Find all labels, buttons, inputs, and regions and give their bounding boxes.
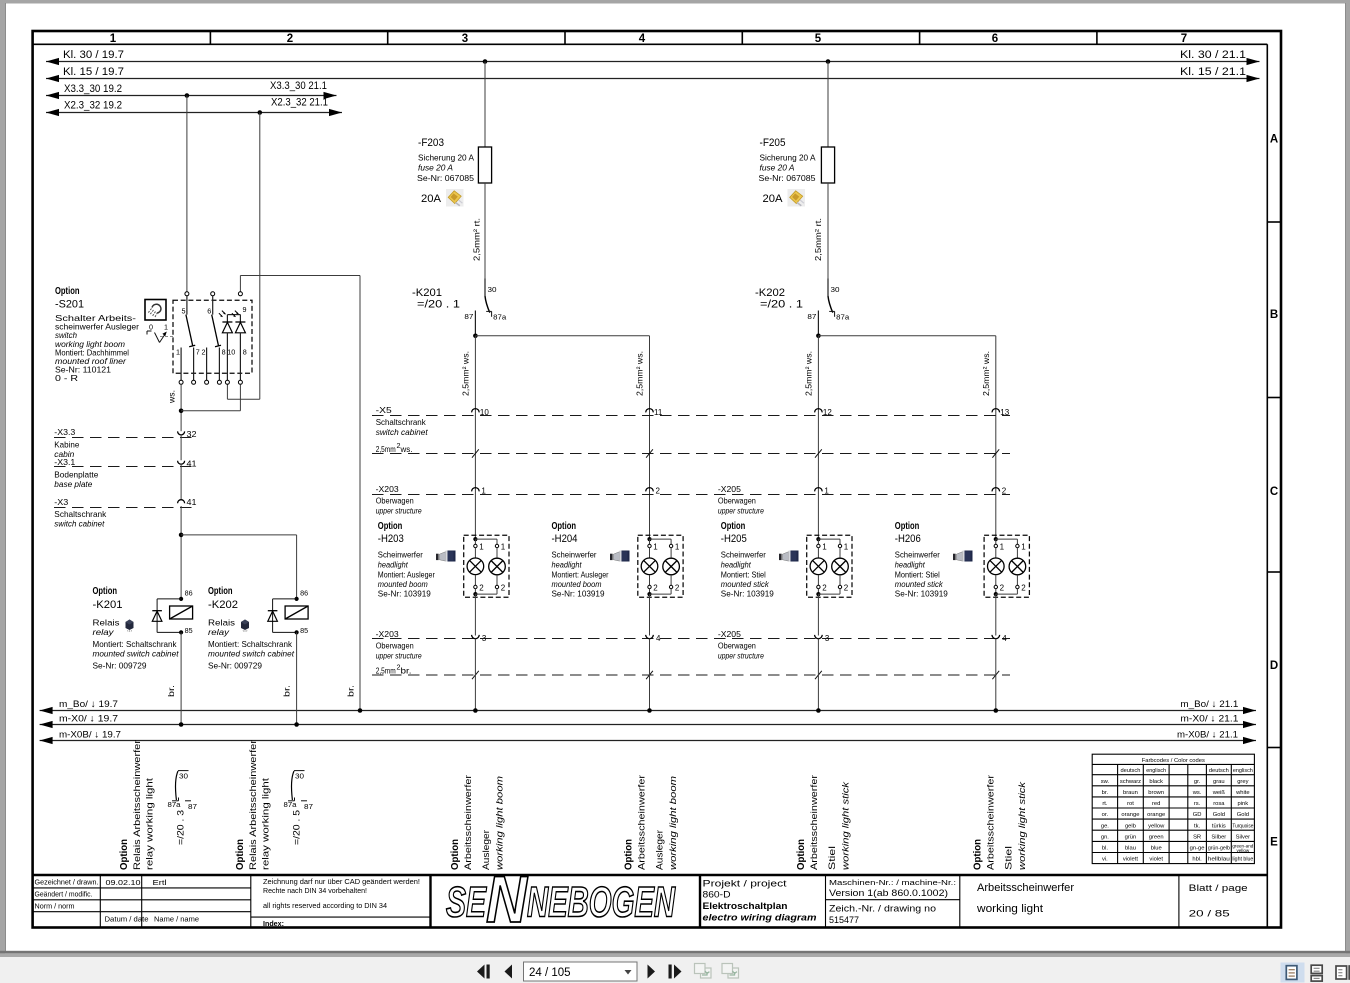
svg-text:Option: Option <box>449 839 461 870</box>
node Kl.30/F203 <box>483 59 488 64</box>
svg-text:Zeich.-Nr. / drawing no: Zeich.-Nr. / drawing no <box>829 903 936 913</box>
svg-text:2,5mm² ws.: 2,5mm² ws. <box>981 351 991 396</box>
svg-text:Rechte nach DIN 34 vorbehalten: Rechte nach DIN 34 vorbehalten! <box>263 886 367 895</box>
X203/X205 upper pin 2 <box>992 488 1000 492</box>
fuse icon F205 <box>788 189 806 207</box>
svg-text:working light boom: working light boom <box>495 776 506 870</box>
wire crossing <box>815 449 822 457</box>
svg-text:Montiert: Stiel: Montiert: Stiel <box>721 569 766 579</box>
svg-text:mounted stick: mounted stick <box>895 579 944 589</box>
svg-text:86: 86 <box>300 589 308 598</box>
svg-text:Option: Option <box>118 839 130 870</box>
svg-text:1: 1 <box>653 543 658 552</box>
svg-text:Option: Option <box>623 839 635 870</box>
svg-text:Oberwagen: Oberwagen <box>376 496 414 506</box>
svg-text:vi.: vi. <box>1102 857 1108 863</box>
svg-text:m_Bo/ ↓ 21.1: m_Bo/ ↓ 21.1 <box>1180 699 1238 710</box>
svg-text:9: 9 <box>243 305 247 314</box>
svg-text:green: green <box>1149 834 1164 840</box>
svg-text:Se-Nr: 009729: Se-Nr: 009729 <box>93 661 147 671</box>
svg-text:headlight: headlight <box>378 559 409 569</box>
connector row X3.3 (Kabine) y=437.2 <box>54 437 197 439</box>
svg-text:Version 1(ab 860.0.1002): Version 1(ab 860.0.1002) <box>829 888 948 898</box>
node on m_Bo <box>816 708 821 713</box>
svg-text:87a: 87a <box>493 313 506 322</box>
SENNEBOGEN logo <box>446 862 676 936</box>
svg-text:1: 1 <box>675 543 680 552</box>
wire crossing <box>472 671 479 679</box>
svg-text:515477: 515477 <box>829 915 859 925</box>
svg-text:or.: or. <box>1102 812 1109 818</box>
svg-text:Option: Option <box>208 585 233 597</box>
wire drain down to m_Bo <box>359 276 361 711</box>
svg-text:englisch: englisch <box>1146 768 1166 774</box>
svg-text:Kl. 15 / 19.7: Kl. 15 / 19.7 <box>63 66 124 78</box>
svg-text:Se-Nr: 103919: Se-Nr: 103919 <box>721 589 774 599</box>
svg-text:sw.: sw. <box>1101 779 1110 785</box>
svg-text:41: 41 <box>187 498 198 507</box>
svg-text:D: D <box>1270 660 1278 672</box>
svg-text:Relais Arbeitsscheinwerfer: Relais Arbeitsscheinwerfer <box>132 739 143 870</box>
svg-text:Bodenplatte: Bodenplatte <box>54 469 98 479</box>
svg-text:pink: pink <box>1238 801 1249 807</box>
node K201 pin 86 <box>179 597 183 601</box>
X5 pin 10 <box>472 409 480 413</box>
svg-text:7: 7 <box>1181 33 1187 45</box>
node ws junction <box>179 409 184 414</box>
lamp H206a <box>988 558 1005 575</box>
svg-text:Se-Nr: 103919: Se-Nr: 103919 <box>552 589 605 599</box>
svg-text:30: 30 <box>179 772 188 781</box>
headlight H205 lamp box <box>807 535 852 597</box>
svg-text:Maschinen-Nr.: / machine-Nr.:: Maschinen-Nr.: / machine-Nr.: <box>829 878 956 887</box>
svg-text:85: 85 <box>300 626 308 635</box>
svg-text:2: 2 <box>656 487 661 496</box>
svg-text:schwarz: schwarz <box>1120 779 1141 785</box>
svg-text:86: 86 <box>185 589 193 598</box>
svg-text:black: black <box>1149 779 1163 785</box>
svg-text:Blatt / page: Blatt / page <box>1189 883 1248 894</box>
svg-text:mounted boom: mounted boom <box>378 579 428 589</box>
wire S201 pin 9 to vertical drain x=360 <box>239 276 241 292</box>
node H205 bottom <box>816 592 820 596</box>
node H204 top <box>647 537 651 541</box>
svg-text:Arbeitsscheinwerfer: Arbeitsscheinwerfer <box>809 774 820 870</box>
svg-text:12: 12 <box>823 408 832 417</box>
svg-text:3: 3 <box>462 33 468 45</box>
svg-text:2: 2 <box>287 33 293 45</box>
svg-text:Oberwagen: Oberwagen <box>376 640 414 650</box>
svg-text:4: 4 <box>639 33 646 45</box>
svg-text:br.: br. <box>167 685 176 697</box>
svg-text:Arbeitsscheinwerfer: Arbeitsscheinwerfer <box>637 774 648 870</box>
wire junction to H206 branch <box>818 335 995 337</box>
svg-text:2: 2 <box>479 584 484 593</box>
relay icon K202 <box>241 620 249 632</box>
X203/X205 lower pin 4 <box>646 635 654 639</box>
svg-text:2: 2 <box>1000 584 1005 593</box>
svg-text:upper structure: upper structure <box>718 506 764 516</box>
svg-text:Kl. 30 / 21.1: Kl. 30 / 21.1 <box>1180 49 1246 61</box>
svg-text:Montiert: Ausleger: Montiert: Ausleger <box>378 569 435 579</box>
wire X2.3_32 down to S201 pin 10 (jog) <box>259 113 261 400</box>
svg-text:Montiert: Ausleger: Montiert: Ausleger <box>552 569 609 579</box>
svg-text:blau: blau <box>1125 846 1136 852</box>
svg-text:41: 41 <box>187 459 198 468</box>
svg-text:Option: Option <box>795 839 807 870</box>
toolbar: next-view button <box>669 965 672 979</box>
wire H206 down to connector <box>995 594 997 635</box>
svg-text:1: 1 <box>1021 543 1026 552</box>
svg-text:85: 85 <box>185 626 193 635</box>
svg-text:fuse 20 A: fuse 20 A <box>418 163 453 173</box>
svg-text:Norm / norm: Norm / norm <box>35 903 75 910</box>
svg-text:1: 1 <box>164 323 168 332</box>
svg-text:Ertl: Ertl <box>153 878 167 887</box>
wire crossing <box>472 449 479 457</box>
svg-text:-K202: -K202 <box>208 599 238 611</box>
svg-text:Schaltschrank: Schaltschrank <box>376 417 427 427</box>
svg-text:E: E <box>1270 837 1278 849</box>
wires lamp branches down to m_Bo rail <box>474 639 476 711</box>
node coil split <box>179 533 184 538</box>
fuse F203 <box>484 62 486 148</box>
svg-text:mounted switch cabinet: mounted switch cabinet <box>208 649 295 659</box>
node H204 bottom <box>647 592 651 596</box>
svg-text:5: 5 <box>182 307 186 316</box>
lamp H204b <box>663 558 680 575</box>
svg-text:rosa: rosa <box>1213 801 1225 807</box>
svg-text:hbl.: hbl. <box>1192 857 1202 863</box>
svg-text:X3.3_30 21.1: X3.3_30 21.1 <box>270 80 327 92</box>
svg-text:10: 10 <box>480 408 489 417</box>
svg-text:working light stick: working light stick <box>840 781 851 870</box>
svg-text:tk.: tk. <box>1194 823 1201 829</box>
wire K201 to m-X0 <box>180 632 182 724</box>
wire branch 4 (->H206) <box>995 336 997 539</box>
svg-text:13: 13 <box>1000 408 1009 417</box>
wire crossing <box>646 449 653 457</box>
svg-text:relay working light: relay working light <box>145 778 156 870</box>
svg-text:1: 1 <box>176 348 180 357</box>
svg-text:-H204: -H204 <box>552 533 578 545</box>
svg-text:bl.: bl. <box>1102 846 1109 852</box>
svg-text:violet: violet <box>1149 857 1163 863</box>
svg-text:Kabine: Kabine <box>54 439 79 449</box>
svg-text:violett: violett <box>1123 857 1139 863</box>
svg-text:2,5mm: 2,5mm <box>376 666 396 675</box>
connector row X3.1 (Bodenplatte) y=466.5 <box>54 466 197 468</box>
svg-text:Arbeitsscheinwerfer: Arbeitsscheinwerfer <box>977 882 1074 894</box>
node K202 pin 86 <box>295 597 299 601</box>
svg-text:Datum / date: Datum / date <box>105 917 149 924</box>
node on m_Bo <box>473 708 478 713</box>
svg-text:N: N <box>486 862 528 936</box>
svg-text:deutsch: deutsch <box>1120 768 1140 774</box>
svg-text:rot: rot <box>1127 801 1134 807</box>
S201 contact 5-1/7 <box>186 296 188 315</box>
svg-text:09.02.10: 09.02.10 <box>106 878 141 887</box>
svg-text:Scheinwerfer: Scheinwerfer <box>378 550 423 560</box>
svg-text:Option: Option <box>895 520 920 532</box>
svg-text:Sicherung 20 A: Sicherung 20 A <box>418 153 474 163</box>
svg-text:mounted stick: mounted stick <box>721 579 770 589</box>
node K201 pin 85 <box>179 630 183 634</box>
headlight H204 lamp box <box>638 535 683 597</box>
S201 bottom pin circles <box>179 380 183 384</box>
wire K202 to m-X0 <box>296 632 298 724</box>
wire down to relay coils <box>180 506 182 599</box>
svg-text:1: 1 <box>501 543 506 552</box>
svg-text:-X203: -X203 <box>376 484 399 494</box>
S201 indicator LEDs pins 9/10/8 <box>227 314 240 316</box>
wire H205 down to connector <box>817 594 819 635</box>
svg-text:NEBOGEN: NEBOGEN <box>527 879 676 927</box>
lamp H206b <box>1009 558 1026 575</box>
wire crossing <box>992 449 999 457</box>
svg-text:gr.: gr. <box>1194 779 1201 785</box>
wire X3.3_30 down to S201 pin 5 <box>186 96 188 292</box>
svg-text:m-X0B/ ↓ 19.7: m-X0B/ ↓ 19.7 <box>59 729 121 740</box>
svg-text:87a: 87a <box>168 800 181 809</box>
svg-text:Montiert: Schaltschrank: Montiert: Schaltschrank <box>93 639 178 649</box>
wire LED return <box>181 410 240 412</box>
relay contact K201 (changeover 30/87/87a) <box>484 279 486 297</box>
H203 pin 2 circles <box>474 585 477 588</box>
svg-text:hellblau: hellblau <box>1208 857 1230 863</box>
svg-text:Option: Option <box>234 839 246 870</box>
svg-text:mounted boom: mounted boom <box>552 579 602 589</box>
svg-text:30: 30 <box>295 772 304 781</box>
svg-text:Ausleger: Ausleger <box>655 829 666 870</box>
svg-text:Zeichnung darf nur über CAD g: Zeichnung darf nur über CAD geändert wer… <box>263 877 420 886</box>
lamp H205b <box>832 558 849 575</box>
node K201-87 junction <box>473 334 478 339</box>
svg-text:gelb: gelb <box>1125 823 1136 829</box>
coil rect K202 <box>285 606 308 619</box>
svg-text:fuse 20 A: fuse 20 A <box>760 163 795 173</box>
svg-text:-X205: -X205 <box>718 629 741 639</box>
svg-text:1: 1 <box>844 543 849 552</box>
svg-text:br.: br. <box>1102 790 1109 796</box>
node K202-87 junction <box>816 334 821 339</box>
svg-text:5: 5 <box>815 33 822 45</box>
svg-text:electro wiring diagram: electro wiring diagram <box>703 913 817 923</box>
svg-text:red: red <box>1152 801 1160 807</box>
svg-text:20A: 20A <box>763 193 784 205</box>
X5 pin 11 <box>646 409 654 413</box>
svg-text:Oberwagen: Oberwagen <box>718 496 756 506</box>
svg-text:Geändert / modific.: Geändert / modific. <box>35 891 93 898</box>
toolbar: disabled snapshot icons <box>695 964 712 979</box>
svg-text:87: 87 <box>807 312 816 321</box>
svg-text:2: 2 <box>675 584 680 593</box>
svg-text:brown: brown <box>1148 790 1164 796</box>
svg-text:gn-ge: gn-ge <box>1190 846 1205 852</box>
S201 contact 6-2/8 <box>212 296 214 315</box>
wire crossing <box>992 671 999 679</box>
fuse F205 <box>827 62 829 148</box>
node on m_Bo <box>994 708 999 713</box>
svg-text:-K201: -K201 <box>412 287 442 299</box>
svg-text:rs.: rs. <box>1194 801 1201 807</box>
wire rail m-X0B (y=740.3) <box>40 740 1256 742</box>
H203 pin 1 circles <box>474 544 477 547</box>
svg-text:grün-gelb: grün-gelb <box>1208 846 1230 852</box>
svg-text:gn.: gn. <box>1101 834 1109 840</box>
svg-text:32: 32 <box>187 430 198 439</box>
svg-text:2: 2 <box>501 584 506 593</box>
bottom right: single page view (active) <box>1281 963 1305 983</box>
svg-text:Option: Option <box>378 520 403 532</box>
svg-text:orange: orange <box>1147 812 1165 818</box>
svg-text:m-X0/ ↓ 21.1: m-X0/ ↓ 21.1 <box>1180 713 1238 724</box>
svg-text:Arbeitsscheinwerfer: Arbeitsscheinwerfer <box>986 774 997 870</box>
svg-text:upper structure: upper structure <box>718 650 764 660</box>
lamp H203a <box>467 558 484 575</box>
X203/X205 upper pin 1 <box>815 488 823 492</box>
connector row X3 (Schaltschrank) y=507 <box>54 507 197 509</box>
toolbar: prev page button <box>505 965 513 979</box>
svg-text:Relais: Relais <box>93 618 120 628</box>
wire S201 pin1 down (ws.) <box>180 384 182 431</box>
svg-text:4: 4 <box>656 634 661 643</box>
svg-text:switch cabinet: switch cabinet <box>376 427 429 437</box>
svg-text:Kl. 30 / 19.7: Kl. 30 / 19.7 <box>63 49 124 61</box>
node Kl.30/F205 <box>826 59 831 64</box>
svg-text:-X5: -X5 <box>376 405 392 415</box>
svg-text:2: 2 <box>822 584 827 593</box>
headlight icon H206 <box>953 551 973 562</box>
svg-text:20A: 20A <box>421 193 442 205</box>
svg-text:24 / 105: 24 / 105 <box>529 967 571 979</box>
svg-text:yellow: yellow <box>1236 848 1249 853</box>
column number band <box>209 31 211 44</box>
svg-text:Scheinwerfer: Scheinwerfer <box>552 550 597 560</box>
connector row X5 (switch cabinet) y=415.6 <box>372 415 1010 417</box>
node K201/m-X0 <box>179 722 184 727</box>
X5 pin 13 <box>992 409 1000 413</box>
svg-text:=/20 . 1: =/20 . 1 <box>760 299 803 311</box>
H205 pin 1 circles <box>817 544 820 547</box>
svg-text:light blue: light blue <box>1232 857 1253 863</box>
svg-text:Montiert: Stiel: Montiert: Stiel <box>895 569 940 579</box>
svg-text:-X203: -X203 <box>376 629 399 639</box>
svg-text:relay: relay <box>93 627 115 637</box>
X203/X205 upper pin 2 <box>646 488 654 492</box>
svg-text:87: 87 <box>304 802 313 811</box>
svg-text:3: 3 <box>482 634 487 643</box>
svg-text:2: 2 <box>653 584 658 593</box>
node X2.3_32/S201 <box>258 110 263 115</box>
svg-text:10: 10 <box>227 348 235 357</box>
svg-text:=/20 . 1: =/20 . 1 <box>417 299 460 311</box>
svg-text:Option: Option <box>552 520 577 532</box>
relay contact K202 (changeover 30/87/87a) <box>827 279 829 297</box>
svg-text:relay working light: relay working light <box>261 778 272 870</box>
svg-text:englisch: englisch <box>1233 768 1253 774</box>
node H203 bottom <box>473 592 477 596</box>
svg-text:30: 30 <box>831 285 840 294</box>
svg-text:2,5mm² rt.: 2,5mm² rt. <box>813 218 823 261</box>
svg-text:SR: SR <box>1193 834 1201 840</box>
svg-text:grau: grau <box>1213 779 1225 785</box>
footer mini contact symbol <box>178 770 189 772</box>
svg-text:Silber: Silber <box>1211 834 1226 840</box>
svg-text:C: C <box>1270 486 1278 498</box>
X203/X205 lower pin 3 <box>815 635 823 639</box>
svg-text:Name / name: Name / name <box>154 917 199 924</box>
svg-text:GD: GD <box>1193 812 1202 818</box>
S201 dashed enclosure <box>173 300 252 373</box>
color codes table <box>1092 754 1254 863</box>
footer mini contact symbol <box>294 770 305 772</box>
svg-text:X3.3_30 19.2: X3.3_30 19.2 <box>64 83 122 95</box>
S201 top pin circles <box>185 292 189 296</box>
headlight H206 lamp box <box>984 535 1029 597</box>
svg-text:br.: br. <box>283 685 292 697</box>
diode K202 <box>268 610 278 612</box>
wire rail X3.3_30 (y=95.5) <box>46 95 337 97</box>
node drain/m_Bo <box>358 708 363 713</box>
node H205 top <box>816 537 820 541</box>
svg-text:Relais: Relais <box>208 618 235 628</box>
lamp H204a <box>641 558 658 575</box>
wire branch 1 (K201->H203) <box>474 336 476 539</box>
svg-text:Option: Option <box>721 520 746 532</box>
svg-text:X2.3_32 19.2: X2.3_32 19.2 <box>64 100 122 112</box>
svg-text:Projekt / project: Projekt / project <box>703 879 788 889</box>
H206 pin 1 circles <box>994 544 997 547</box>
svg-text:=/20 . 5: =/20 . 5 <box>292 810 303 845</box>
node H206 top <box>994 537 998 541</box>
headlight icon H203 <box>436 551 456 562</box>
svg-text:2,5mm² ws.: 2,5mm² ws. <box>803 351 813 396</box>
toolbar: page number box 24/105 <box>524 962 638 981</box>
svg-text:3: 3 <box>825 634 830 643</box>
svg-text:6: 6 <box>207 307 211 316</box>
svg-text:working light stick: working light stick <box>1017 781 1028 870</box>
svg-text:20 / 85: 20 / 85 <box>1189 909 1230 920</box>
svg-text:deutsch: deutsch <box>1209 768 1229 774</box>
lamp H203b <box>489 558 506 575</box>
svg-text:-K202: -K202 <box>755 287 785 299</box>
svg-text:2,5mm² rt.: 2,5mm² rt. <box>472 218 482 261</box>
svg-text:m_Bo/ ↓ 19.7: m_Bo/ ↓ 19.7 <box>59 699 118 710</box>
wire rail m_Bo (y=710) <box>40 710 1256 712</box>
svg-text:-H203: -H203 <box>378 533 404 545</box>
relay icon K201 <box>126 620 134 632</box>
H206 pin 2 circles <box>994 585 997 588</box>
svg-text:11: 11 <box>654 408 663 417</box>
node on m_Bo <box>647 708 652 713</box>
toolbar: next page button <box>648 965 656 979</box>
svg-text:4: 4 <box>1002 634 1007 643</box>
svg-text:mounted switch cabinet: mounted switch cabinet <box>93 649 180 659</box>
svg-text:Option: Option <box>93 585 118 597</box>
node X3.3_30/S201 <box>185 93 190 98</box>
svg-text:-X3.1: -X3.1 <box>54 457 75 467</box>
svg-text:ge.: ge. <box>1101 823 1109 829</box>
svg-text:ws.: ws. <box>400 445 413 454</box>
svg-text:orange: orange <box>1121 812 1139 818</box>
svg-text:-X3.3: -X3.3 <box>54 427 75 437</box>
svg-text:Oberwagen: Oberwagen <box>718 640 756 650</box>
svg-text:-X205: -X205 <box>718 484 741 494</box>
svg-text:Gold: Gold <box>1213 812 1225 818</box>
svg-text:6: 6 <box>992 33 998 45</box>
wire rail m-X0 (y=724.4) <box>40 724 1256 726</box>
